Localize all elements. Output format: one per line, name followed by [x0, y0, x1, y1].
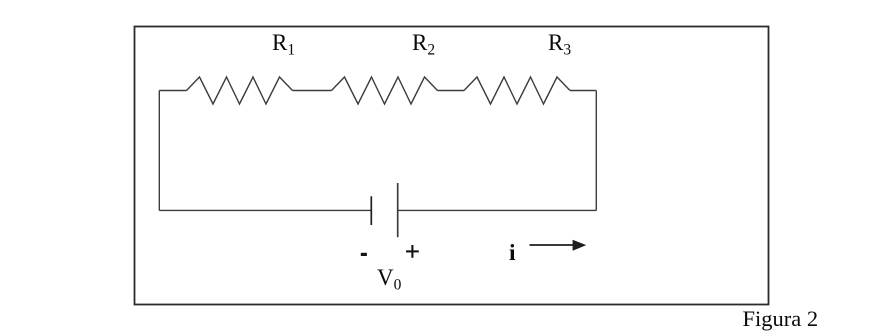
label minus sign — [361, 253, 367, 256]
svg-text:R2: R2 — [412, 30, 435, 59]
svg-text:R1: R1 — [272, 30, 295, 59]
svg-text:Figura 2: Figura 2 — [743, 306, 819, 331]
wire: left vertical — [158, 91, 160, 211]
battery V0 positive plate (long) — [397, 183, 399, 237]
svg-text:R3: R3 — [548, 30, 571, 59]
wire: top-left stub — [159, 90, 186, 92]
figure border frame — [135, 27, 769, 305]
battery V0 negative plate (short) — [370, 196, 372, 225]
wire: top-right stub — [570, 90, 596, 92]
svg-text:V0: V0 — [377, 265, 402, 294]
wire: battery to bottom-right — [398, 209, 597, 211]
wire: between R2 and R3 — [438, 90, 465, 92]
wire: bottom-left to battery — [159, 209, 371, 211]
current arrow — [530, 240, 587, 251]
resistor R1 — [187, 77, 293, 104]
wire: right vertical — [595, 91, 597, 211]
resistor R2 — [332, 77, 438, 104]
wire: between R1 and R2 — [293, 90, 332, 92]
label plus sign — [406, 245, 419, 258]
svg-text:i: i — [509, 240, 516, 266]
resistor R3 — [464, 77, 570, 104]
